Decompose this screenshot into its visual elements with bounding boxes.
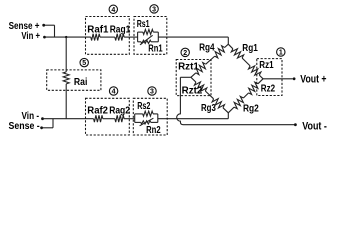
svg-text:Rg1: Rg1 [242, 43, 258, 54]
zero balance box 2 [176, 60, 211, 96]
wire bridge edge top-left [225, 44, 229, 47]
zero balance box 1 [257, 59, 282, 96]
svg-text:Vin +: Vin + [21, 31, 40, 42]
compensation box 4 (bottom) [86, 98, 130, 135]
svg-text:4: 4 [112, 89, 116, 96]
compensation box 3 (bottom) [133, 98, 167, 135]
circled 1 [277, 48, 285, 56]
svg-text:2: 2 [183, 50, 187, 57]
wire Rai branch [65, 37, 67, 72]
circled 2 [181, 48, 189, 56]
node Rai tap junction [65, 36, 67, 38]
terminal Vout- [294, 123, 297, 126]
svg-text:Rzt1: Rzt1 [178, 62, 199, 73]
compensation box 4 (top) [86, 17, 130, 55]
svg-text:4: 4 [111, 7, 115, 14]
svg-text:Rg3: Rg3 [201, 103, 216, 114]
wire bridge edge top-right [228, 44, 233, 49]
circled 3 (top) [150, 5, 158, 13]
wire bottom vertex stub [227, 113, 229, 119]
svg-text:Rai: Rai [74, 77, 88, 88]
svg-text:Vout -: Vout - [302, 121, 327, 133]
parallel rect Rs1/Rn1 [137, 32, 139, 42]
wire top vertex stub [227, 37, 229, 44]
svg-text:Rz2: Rz2 [261, 83, 276, 94]
svg-text:Rn1: Rn1 [148, 44, 163, 55]
svg-text:3: 3 [152, 6, 156, 13]
svg-text:Rn2: Rn2 [146, 125, 161, 136]
wire Vin+ main top [46, 36, 91, 38]
svg-text:Rz1: Rz1 [259, 60, 274, 71]
input balance box 5 [47, 70, 101, 90]
svg-text:Vout +: Vout + [300, 73, 326, 85]
svg-text:Rg2: Rg2 [243, 104, 259, 115]
wire left vertex to Vout- with crossover hop [180, 76, 191, 78]
resistor Rn1 (adjustable) [141, 40, 151, 43]
wire Vin- main bottom [44, 118, 94, 120]
svg-text:Rs1: Rs1 [137, 19, 150, 30]
svg-text:Raf1: Raf1 [87, 25, 109, 36]
svg-text:Rag2: Rag2 [109, 106, 130, 117]
circled 3 (bottom) [148, 87, 156, 95]
circled 4 (top) [109, 5, 117, 13]
circled 4 (bottom) [109, 87, 117, 95]
compensation box 3 (top) [134, 17, 167, 55]
svg-text:Rg4: Rg4 [199, 43, 215, 54]
svg-text:Sense -: Sense - [9, 121, 40, 132]
terminal Vout+ [293, 77, 296, 80]
svg-text:3: 3 [150, 89, 154, 96]
wire bridge edge bottom-left [191, 77, 196, 82]
svg-text:Raf2: Raf2 [87, 106, 108, 117]
resistor Rzt1 [196, 63, 206, 75]
resistor Rai [63, 72, 69, 84]
svg-text:5: 5 [82, 60, 86, 67]
resistor Rz2 [249, 82, 258, 94]
resistor Rz1 [249, 66, 261, 75]
wire right vertex to Vout+ [263, 78, 293, 80]
wire bridge edge bottom-right [258, 79, 263, 84]
svg-text:1: 1 [279, 50, 283, 57]
circled 5 [80, 58, 88, 66]
svg-text:Rzt2: Rzt2 [182, 85, 203, 96]
resistor Rn2 (adjustable) [141, 121, 151, 124]
resistor Rzt2 [194, 82, 206, 91]
parallel rect Rs2/Rn2 [134, 114, 136, 123]
